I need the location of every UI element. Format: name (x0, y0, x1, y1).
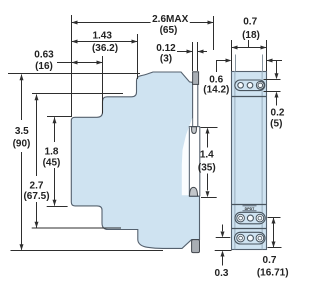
svg-text:1.8: 1.8 (45, 147, 59, 158)
svg-text:1.4: 1.4 (200, 149, 214, 160)
DPDT label (243, 205, 257, 207)
svg-text:(14.2): (14.2) (203, 85, 229, 96)
svg-text:2.6MAX: 2.6MAX (152, 14, 188, 25)
svg-text:DPDT: DPDT (245, 207, 256, 211)
svg-text:(16.71): (16.71) (257, 267, 289, 278)
front view inner edge lines (234, 71, 236, 249)
dimension 0.63 (16) (57, 62, 103, 64)
dimension 3.5 (90) (8, 73, 140, 75)
top section divider (232, 96, 267, 98)
din rail strip right line upper (197, 84, 199, 126)
dimension 0.6 (14.2) (217, 61, 226, 73)
dimension 2.6MAX (65) (72, 22, 151, 24)
svg-text:(16): (16) (35, 61, 53, 72)
lower hook dome (190, 187, 198, 196)
dimension 0.7 (16.71) bottom (268, 217, 281, 219)
terminal block top (235, 80, 265, 91)
upper hook notch (192, 127, 197, 134)
white channel wedge inside back edge (182, 118, 192, 195)
svg-text:0.2: 0.2 (271, 108, 285, 119)
terminal block middle (235, 212, 265, 224)
dimension 1.8 (45) (47, 116, 71, 118)
side view body (71, 72, 199, 248)
divider above DPDT (232, 204, 267, 206)
svg-text:(36.2): (36.2) (92, 43, 118, 54)
svg-text:1.43: 1.43 (92, 31, 112, 42)
svg-text:0.7: 0.7 (263, 255, 277, 266)
svg-text:(35): (35) (198, 162, 216, 173)
terminal block bottom (235, 232, 266, 244)
svg-text:0.3: 0.3 (215, 268, 229, 279)
dimension 0.3 (222, 225, 224, 232)
svg-text:(45): (45) (43, 157, 61, 168)
svg-text:0.7: 0.7 (243, 17, 257, 28)
svg-text:0.63: 0.63 (34, 50, 54, 61)
bottom clip tab (192, 240, 200, 253)
dimension 0.12 (3) (177, 51, 193, 53)
svg-text:(90): (90) (13, 138, 31, 149)
front view body (232, 72, 267, 250)
divider below middle block (232, 228, 267, 230)
svg-text:(18): (18) (242, 30, 260, 41)
dimension 2.7 (67.5) (32, 93, 123, 95)
svg-text:(67.5): (67.5) (23, 191, 49, 202)
svg-text:(65): (65) (160, 25, 178, 36)
dimension 0.2 (5) (264, 79, 281, 81)
back edge below shelf (199, 127, 201, 197)
svg-text:(3): (3) (160, 54, 172, 65)
dimension 1.4 (35) (201, 127, 218, 129)
top clip gray cap (193, 72, 199, 85)
svg-text:(5): (5) (270, 119, 282, 130)
dome base line (189, 195, 199, 197)
svg-text:3.5: 3.5 (15, 126, 29, 137)
hook shelf upper (189, 126, 200, 128)
dimension 0.7 (18) top (232, 47, 267, 49)
dimension 1.43 (36.2) (72, 41, 138, 43)
